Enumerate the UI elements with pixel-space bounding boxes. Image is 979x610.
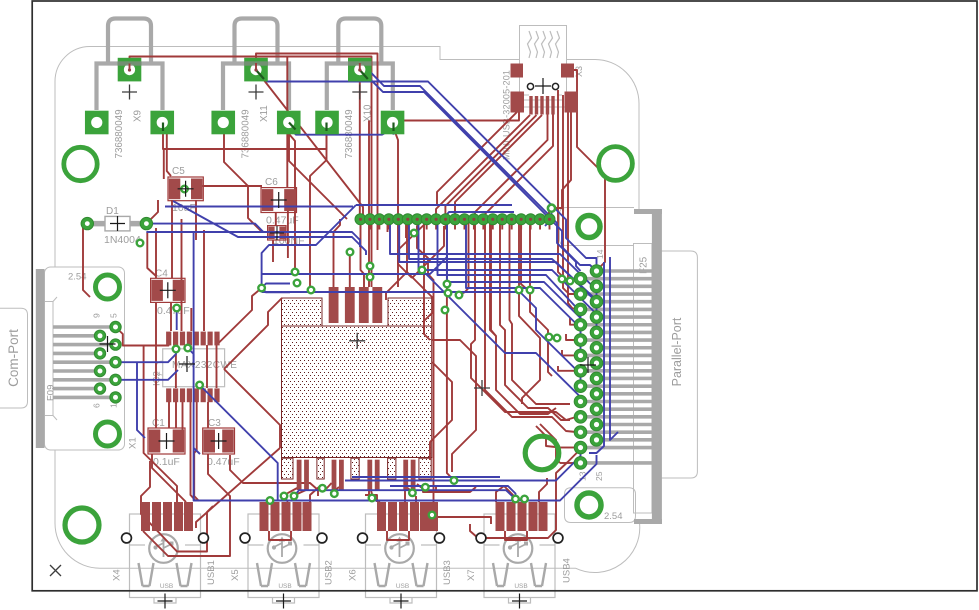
svg-text:736880049: 736880049 [240,109,251,158]
wire C5 diag to bus [173,201,366,255]
connector X6 USB3 body [366,514,437,598]
wire USB1 diag to IC corner [196,448,280,528]
wire DB25 stub r4 [570,318,576,325]
via V10 [294,280,301,287]
svg-text:Com-Port: Com-Port [6,329,21,387]
wire header stub 13 [482,224,484,230]
wire IC2 top feed 2 [203,230,205,331]
X3 signal pads [529,96,532,115]
wire via to IC2 blue [188,348,194,365]
svg-text:X9: X9 [132,110,143,122]
X10 pad2 exit [325,123,327,132]
wire mini-USB pad s1 diag [436,115,530,219]
via V30 [181,186,188,193]
wire bus y480 [345,448,581,481]
X5 USB logo [268,534,297,563]
wire USB3 via link [415,496,417,502]
wire mini-USB shield BL diag [437,112,517,205]
via V15 [445,290,452,297]
wire C3 blue [194,448,200,454]
wire C1 to USB1 [152,454,186,502]
wire X11 pads link [289,128,394,135]
wire USB4 wrap [470,451,579,538]
Parallel-Port connector outline top box [560,208,635,246]
wire D1 bus y232 [146,232,360,247]
wire mini-USB pad s4 diag [471,114,576,420]
wire X11 pad1 diagonal [256,70,363,219]
wire C6 bus [165,206,353,208]
wire IC2 top feed 1 [181,219,183,331]
X1 pins [53,325,112,329]
wire U1 pad to via425 [417,484,425,487]
wire mini-USB TR to DB25 [567,70,605,271]
IC U1 hatched bottom blocks [282,458,294,479]
svg-text:0.47uF: 0.47uF [266,215,299,227]
wire red right bundle 2 [563,95,576,294]
via V36 [451,477,458,484]
via V21 [331,490,338,497]
wire D1 to C5 area [146,200,158,224]
wire X9 pad3 to C5 [167,134,171,176]
F25 origin cross [580,357,596,373]
wire header stub 1 [369,224,371,230]
via V32 [546,334,553,341]
X1 pad column 6-9 [94,330,105,341]
capacitor C3 pads [203,428,235,454]
wire DB9 to IC2 2 [116,370,179,380]
via V12 [367,263,374,270]
X6 shield prongs [375,563,390,586]
board outline [55,47,640,573]
wire X10 pad1 bus A [360,70,581,271]
wire USB3 snake [365,495,377,502]
X11 pad 1 (top) [244,58,268,82]
wire bus y262 [399,219,596,317]
wire IC2 right diag up [217,288,262,345]
F25 pins [576,277,652,281]
wire via 422 diag [422,270,581,402]
via V24 [442,307,449,314]
via V18 [559,276,566,283]
wire header stub 12 [473,224,475,230]
wire C6 to C7 [275,212,277,226]
wire IC2 pin11 down [182,402,184,430]
X1 mounting ring top [96,275,120,299]
wire C4 right pad down [170,302,172,331]
wire X10 pad3 down [394,128,413,278]
wire left vert to C1 diag [144,395,177,502]
capacitor C1 pads [148,428,185,454]
wire header stub 5 [407,224,409,230]
wire X11 region drop [224,134,262,232]
wire blue vert 137 [137,362,145,438]
X10 pad 1 (top) [348,58,372,82]
via V9 [292,269,299,276]
svg-text:13: 13 [578,471,588,481]
IC U1 pads top [329,287,339,323]
connector X3 mini-USB silkscreen [520,26,566,107]
X7 USB logo [504,534,533,563]
via V35 [429,512,436,519]
wire header stub 16 [511,224,513,230]
wire DB25 stub low2 [560,462,576,464]
wire C3 down right [230,455,318,496]
wire header stub 17 [520,224,522,230]
IC2 origin cross [179,356,195,372]
wire U1 bottom via drop 1 [334,487,339,491]
wire bus y477 [352,476,500,478]
svg-text:D1: D1 [106,206,119,217]
wire U1 top bus [262,254,447,274]
wire red right bundle 1 [558,90,576,279]
wire header top bus right [443,212,514,219]
wire row vert 521 [521,222,530,292]
wire row drop 8 [529,219,531,290]
wire C4 feed 2 [155,228,157,278]
wire blue right col B [610,257,618,440]
wire C4 down to C1 [155,302,157,428]
wire USB2 via link [310,487,319,502]
wire C5 left pad down [163,149,165,179]
wire DB25 stub r6 [562,350,576,355]
X9 pad3 exit [162,123,164,132]
D1 origin cross [110,216,125,231]
X11 pad3 exit [289,123,296,130]
svg-text:X6: X6 [348,569,359,581]
via V23 [409,490,416,497]
mounting hole bottom-right [525,436,559,470]
wire X11 pad1 bus [256,70,597,266]
wire IC2 pin14 down to C3 [207,402,209,428]
X11 pad1 trace in hole [255,63,257,71]
svg-text:C5: C5 [172,166,185,177]
X5 shield prongs [257,563,272,586]
wire row drop 4 [490,219,556,414]
svg-text:USB3: USB3 [442,560,453,585]
IC U1 hatched main body [282,326,432,458]
svg-text:USB: USB [396,583,409,590]
svg-text:736880049: 736880049 [114,109,125,158]
wire bus y282 [447,219,581,340]
wire row drop 7 [518,219,520,290]
wire U1 bottom to right bus [423,487,476,492]
wire C5 down long [171,200,173,278]
X9 pad 2 (left) [85,111,109,135]
wire U1 bottom to USB2 2 [296,490,306,495]
wire header stub 4 [397,224,399,230]
via V25 [512,496,519,503]
connector X11 silkscreen [235,19,278,64]
X3 mounting hole left [527,83,533,89]
svg-text:USB4: USB4 [562,558,573,583]
wire center verticals 2 [459,222,469,295]
wire header stub 2 [378,224,380,230]
wire row drop 2 [405,219,407,238]
wire bus y254 [390,219,597,302]
X1 origin cross [100,336,116,352]
via V34 [521,496,528,503]
X3 origin cross [535,78,551,94]
capacitor crosses [178,181,194,197]
connector X9 silkscreen [108,19,151,64]
svg-text:0.47uF: 0.47uF [207,456,240,468]
origin mark X bottom-left [50,565,61,576]
wire U1 bottom via drop 2 [370,487,372,494]
via V4 [258,285,265,292]
mounting hole top-left [64,147,97,180]
svg-text:Parallel-Port: Parallel-Port [670,317,684,386]
connector X5 USB2 body [248,514,319,598]
wire header stub 8 [435,224,437,230]
svg-text:USB: USB [278,583,291,590]
X11 origin cross [249,85,264,100]
X11 pad 3 (right) [277,111,301,135]
wire X10R blue drop [393,123,395,135]
wire DB25 stub r5 [566,334,576,340]
wire X11 pad3 to via [289,134,295,269]
svg-text:1N4004: 1N4004 [104,234,141,246]
via V3 [196,382,203,389]
wire C4 feed 1 [147,232,156,276]
wire fan leg right [407,272,433,334]
X10 origin cross [352,85,367,100]
via V14 [444,281,451,288]
diode D1 body [105,216,130,231]
wire C3 down left [208,454,230,531]
wire C5 to C6 [201,185,262,187]
wire blue y486 [390,486,516,498]
mounting hole top-right [599,147,633,181]
wire U1 pad to via322 [324,483,332,488]
wire row drop 5 [500,219,570,420]
svg-text:25: 25 [594,471,604,481]
wire header stub 9 [445,224,447,230]
svg-text:USB1: USB1 [206,560,217,585]
svg-text:USB: USB [514,583,527,590]
wire bus y270 [419,219,597,332]
F25 connector face bar [652,209,662,524]
USB smd pads [141,502,150,531]
X3 shield pad top-left [511,64,524,78]
wire header stub 20 [549,224,551,230]
wire IC2 body vertical 2 [206,345,208,388]
svg-text:C1: C1 [152,418,165,429]
wire header stub 6 [416,224,418,230]
wire header via blue [545,208,552,226]
X6 USB logo [385,534,414,563]
svg-text:X5: X5 [230,569,241,581]
wire U1 bottom to USB2 1 [285,487,299,502]
wire bus y275 [438,219,581,330]
USB holes and crosses [122,533,132,543]
wire center verticals 1 [447,222,454,481]
D1 pad cathode [140,217,152,229]
wire USB3 pads join [387,531,409,540]
capacitor C5 pads [168,177,203,201]
X9 pad 3 (right) [150,111,174,135]
wire header stub 7 [426,224,428,230]
Parallel-Port label box [661,251,698,478]
connector X1 DB9 body [45,267,125,450]
via V2 [185,345,192,352]
wire left vert T [143,346,145,395]
via V37 [422,484,429,491]
wire DB25 stub low1 [560,447,576,449]
wire row red top right [549,208,552,219]
Parallel-Port connector outline bottom box [565,488,636,523]
wire mini-USB pad s2 diag [445,115,536,219]
wire header stub 0 [360,224,362,230]
wire U1 pad top1 up [334,219,341,287]
X9 pad 1 (top) [118,58,142,82]
wire D1 right bus [146,224,263,232]
IC U1 origin cross [349,333,365,349]
wire U1 bottom to USB3 1 [369,490,380,502]
free cross center-right [474,380,490,396]
D1 lead right [130,221,146,227]
svg-text:X4: X4 [112,569,123,581]
svg-text:USB: USB [160,583,173,590]
wire USB1 to USB2 red [143,531,230,556]
wire header stub 19 [539,224,541,230]
wire U1 top right fan 2 [412,226,444,278]
wire X9 pad3 to X10 pad2 [163,128,327,149]
wire header stub 14 [492,224,494,230]
via V28 [347,249,354,256]
svg-text:6: 6 [92,403,102,408]
wire via Z right [262,284,290,289]
F25 pads 1-13 [574,272,587,285]
wire USB4 pad join [539,478,547,502]
IC U1 hatched area top-left block [282,298,323,326]
via V22 [369,495,376,502]
wire USB4 pads join [505,531,527,540]
wire X10R drop2 [386,219,407,300]
X11 pad 2 (left) [211,111,235,135]
via V11 [308,287,315,294]
wire row drop 1 [387,219,389,232]
wire header left wrap [262,205,356,288]
wire IC2 body vertical 1 [175,345,177,388]
wire C6 top feed [286,57,288,189]
capacitor C4 pads [151,278,185,302]
wire header top bus [356,204,512,206]
wire via bus y292 [262,292,581,386]
X3 shield pad bottom-right [565,92,579,113]
capacitor C7 100NF pads [268,226,286,240]
wire IC2 pin10 down [175,402,177,428]
wire header stub 18 [530,224,532,230]
wire X11 pad3 down [289,128,347,219]
wire via C4 blue drop [176,308,178,330]
X10 pad3 exit [392,123,394,132]
via V8 [173,305,180,312]
via V13 [419,267,426,274]
X4 shield prongs [139,563,154,586]
wire fan low join1 [540,424,560,463]
wire DB9 to IC2 1 [116,348,177,362]
wire header stub 15 [501,224,503,230]
connector X4 USB1 body [130,514,201,598]
connector X10 silkscreen [338,19,381,64]
X3 shield pad top-right [561,64,574,78]
svg-text:X11: X11 [259,105,270,122]
X3 mounting hole right [552,83,558,89]
wire via Z left [262,288,290,292]
D1 pad anode [81,217,93,229]
wire U1 right mid [430,362,452,460]
wire C7 to U1 area [272,240,274,262]
via right of header [548,205,555,212]
wire IC2 body vertical 3 [216,345,218,388]
svg-text:X3: X3 [574,66,584,77]
wire second top vert [368,121,370,288]
capacitor C6 pads [261,188,297,213]
X10 pad 3 (right) [381,111,405,135]
wire IC2 right diag down [224,369,280,448]
wire header stub 10 [454,224,456,230]
wire row drop 6 [510,219,571,404]
D1 lead left [88,221,105,227]
wire IC2 top feed 3 [190,308,192,331]
wire U1 pad top2 up [349,252,351,287]
via V26 [456,292,463,299]
wire DB25 stub r7 [558,366,576,371]
wire blue y490 [296,490,516,499]
wire X11 top bus 2 [256,54,378,251]
IC U1 hatched area top-right block [388,298,432,326]
svg-text:5: 5 [109,313,119,318]
X10 pad 2 (left) [315,111,339,135]
wire X10 pad1 to U1 [361,219,365,287]
svg-text:X1: X1 [128,437,139,449]
via V20 [267,497,274,504]
svg-text:X7: X7 [466,569,477,581]
X3 shield pad bottom-left [511,92,525,113]
connector F25 insulator outline [634,244,652,514]
F25 mounting ring top [578,216,600,238]
wire C6 right pad down [287,199,289,258]
X4 USB logo [149,534,178,563]
wire row drop 3 [424,219,430,340]
X1 pad column 1-5 [110,321,121,332]
wire via fan 1 [519,290,540,404]
wire bus y259 [409,219,597,309]
F25 pads 14-25 [590,265,603,278]
svg-text:F09: F09 [46,385,57,401]
wire X10 pad1 bus B [360,70,597,271]
wire blue right col A [589,262,604,453]
wire row to U1 right [417,226,436,516]
wire USB4 pads feed [496,486,513,502]
wire bottom bus to USB4 [435,487,437,492]
via V16 [516,287,523,294]
via V31 [411,230,418,237]
IC U1 pads bottom [297,460,302,490]
wire header stub 11 [463,224,465,230]
svg-text:C6: C6 [265,177,278,188]
via V29 [367,274,374,281]
X1 connector face bar [36,269,45,448]
via V7 [291,493,298,500]
IC2 pads bottom row [166,388,171,402]
svg-text:9: 9 [92,313,102,318]
via V27 [319,485,326,492]
wire bus y288 [466,219,581,355]
wire mini-USB pad s3 diag [455,115,542,219]
wire DB9 pad5 to IC2 pin1 [116,327,169,346]
X10 pad1 trace in hole [359,63,361,71]
